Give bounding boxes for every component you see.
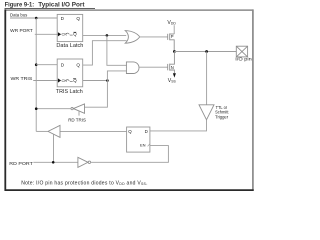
clock arrow data latch <box>58 32 61 36</box>
wire data bus vertical <box>35 18 37 131</box>
wire schmitt output to EN latch D <box>150 120 207 131</box>
svg-text:RD TRIS: RD TRIS <box>68 118 86 123</box>
wire TRIS Qbar down to RD TRIS buffer <box>85 81 108 108</box>
clock arrow TRIS latch <box>58 78 61 82</box>
transistor Q2 N-MOSFET <box>168 52 175 74</box>
latch U1 Data Latch box <box>57 14 82 41</box>
OR gate G1 <box>125 31 140 44</box>
wire WR TRIS to TRIS latch CK <box>33 80 58 82</box>
wire data latch Qbar to OR gate <box>83 34 127 36</box>
ground VSS arrow <box>173 73 176 77</box>
title Figure 9-1 <box>5 1 85 8</box>
bubble RD PORT buffer <box>88 161 91 164</box>
label TTL or Schmitt Trigger <box>215 105 229 119</box>
wire TRIS Qbar to junction <box>83 80 108 82</box>
svg-text:I/O pin: I/O pin <box>235 57 252 62</box>
svg-text:Figure 9-1:: Figure 9-1: <box>5 1 35 8</box>
buffer U3 TTL or Schmitt trigger <box>199 105 214 120</box>
wire read buffer enable <box>53 134 55 162</box>
inverter U6 RD TRIS <box>73 104 84 113</box>
svg-text:P: P <box>171 34 174 39</box>
svg-text:EN: EN <box>140 143 146 148</box>
wire TRIS Q up to OR gate <box>83 41 127 65</box>
enable stub RD TRIS <box>78 111 80 116</box>
wire WR PORT to data latch CK <box>35 33 58 35</box>
wire data Qbar down to AND gate <box>107 35 127 65</box>
junction output node <box>173 50 176 53</box>
svg-text:D: D <box>145 129 148 134</box>
junction RD TRIS to data bus <box>35 107 38 110</box>
wire input latch Q to read buffer <box>60 130 127 132</box>
svg-text:SS: SS <box>171 80 176 84</box>
svg-text:RD PORT: RD PORT <box>9 161 33 166</box>
tick at EN pin <box>148 144 150 147</box>
bubble RD TRIS inverter <box>71 107 73 109</box>
figure frame <box>5 9 254 190</box>
svg-text:Data Latch: Data Latch <box>56 43 83 49</box>
svg-text:Data bus: Data bus <box>10 12 28 17</box>
squiggle artifact data latch <box>66 33 69 34</box>
wire data bus horizontal <box>10 17 57 19</box>
svg-text:WR PORT: WR PORT <box>10 28 33 33</box>
svg-text:TRIS Latch: TRIS Latch <box>56 89 83 95</box>
svg-text:Q: Q <box>76 16 80 21</box>
junction data bus to TRIS D <box>35 63 38 66</box>
junction RD PORT enable <box>52 161 55 164</box>
wire RD TRIS inverter output to data bus <box>36 108 71 110</box>
I/O pin pad <box>236 46 247 57</box>
wire to TRIS latch D <box>36 64 57 66</box>
tristate buffer U5 read port <box>48 125 60 137</box>
wire OR output to P gate <box>139 36 167 38</box>
junction data bus to vertical bus <box>35 17 38 20</box>
latch U2 TRIS Latch box <box>57 59 82 87</box>
AND gate G2 <box>126 62 139 74</box>
ground VSS label <box>168 78 177 84</box>
wire input tap down to schmitt buffer <box>206 52 208 105</box>
squiggle artifact TRIS latch <box>66 80 69 81</box>
wire output node to IO pin <box>174 51 236 53</box>
svg-text:Q: Q <box>128 129 132 134</box>
junction TRIS Qbar <box>106 79 109 82</box>
buffer U7 RD PORT <box>78 157 88 167</box>
latch U4 input latch box <box>127 127 150 152</box>
svg-text:Note: I/O pin has protection d: Note: I/O pin has protection diodes to V… <box>21 181 148 187</box>
title underline <box>5 7 96 9</box>
svg-text:Typical I/O Port: Typical I/O Port <box>38 1 84 8</box>
svg-text:Trigger: Trigger <box>215 114 228 119</box>
svg-text:WR TRIS: WR TRIS <box>11 76 33 81</box>
junction data Qbar <box>106 34 109 37</box>
power VDD label <box>167 20 176 26</box>
svg-text:N: N <box>171 65 174 70</box>
transistor Q1 P-MOSFET <box>168 33 175 51</box>
wire VDD to P source <box>173 25 175 34</box>
svg-text:DD: DD <box>171 22 176 26</box>
wire read buffer output to data bus <box>36 130 48 132</box>
wire TRIS Qbar up to AND gate <box>107 71 126 81</box>
wire AND output to N gate <box>139 66 168 68</box>
junction input tap <box>205 50 208 53</box>
wire RD PORT buffer to EN pin <box>91 146 169 163</box>
svg-text:Q: Q <box>76 62 80 67</box>
wire RD PORT <box>33 161 78 163</box>
